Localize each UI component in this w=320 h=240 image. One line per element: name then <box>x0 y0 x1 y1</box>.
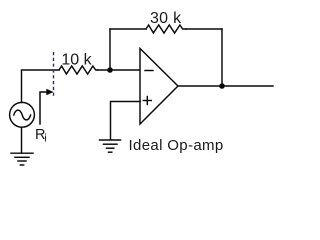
wire: feedback top right segment <box>186 28 222 30</box>
svg-text:i: i <box>44 132 46 144</box>
wire: feedback left vertical <box>109 29 111 70</box>
wire: R1 to op-amp inverting input <box>98 69 140 71</box>
wire: feedback top left segment <box>110 28 146 30</box>
source V1: AC source circle <box>10 102 35 127</box>
arrow: Ri pointer <box>40 92 47 124</box>
node B: output junction dot <box>219 83 225 89</box>
resistor R2 30 k <box>146 25 186 33</box>
source V1: sine wave <box>14 110 31 120</box>
label Ri <box>35 127 47 145</box>
svg-text:Ideal Op-amp: Ideal Op-amp <box>129 137 224 154</box>
dashed cut line for Ri measurement <box>53 52 55 98</box>
wire: feedback right vertical down to output <box>221 29 223 86</box>
node A: junction dot at inverting input <box>107 67 113 73</box>
op-amp minus pin symbol <box>145 70 153 72</box>
wire: non-inverting input to ground <box>111 102 141 140</box>
ground: op-amp non-inverting input <box>100 140 121 152</box>
ground: below source <box>11 153 33 165</box>
svg-text:10 k: 10 k <box>61 52 92 69</box>
wire: source top to main node <box>22 70 60 103</box>
op-amp U1 <box>140 49 178 125</box>
wire: source bottom to ground <box>21 127 23 153</box>
resistor R1 10 k <box>59 66 98 74</box>
svg-text:30 k: 30 k <box>150 10 182 27</box>
op-amp plus pin symbol <box>143 97 151 105</box>
wire: op-amp output <box>178 85 273 87</box>
